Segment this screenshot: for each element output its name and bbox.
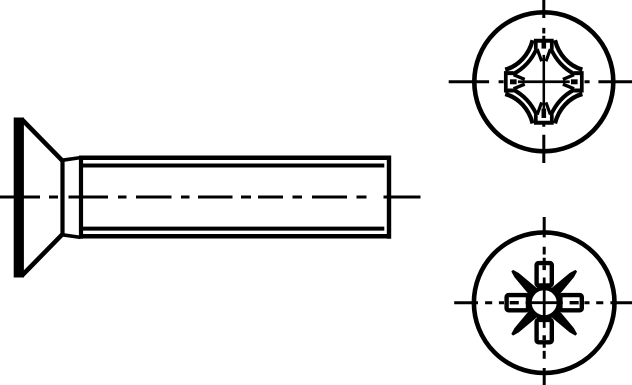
slot tip stub S xyxy=(543,335,546,340)
recess inner arc SE xyxy=(551,90,574,115)
recess tip stub left xyxy=(510,79,517,84)
slot tip stub W xyxy=(510,301,519,304)
neck runout lower line xyxy=(63,235,81,238)
recess inner arc NW xyxy=(514,49,537,74)
centerline (dash-dot axis of screw) xyxy=(0,196,421,199)
screw end vertical line xyxy=(387,156,391,239)
recess wing tip bracket bottom xyxy=(536,114,552,122)
recess inner arc SW xyxy=(514,90,537,115)
recess outer arc SE xyxy=(555,94,582,124)
recess wing tip bracket right xyxy=(574,73,582,90)
thread minor diameter bottom line xyxy=(83,227,384,231)
thread start vertical line xyxy=(79,156,83,239)
thread major diameter top line xyxy=(79,156,391,161)
recess wing tip bracket top xyxy=(536,41,552,49)
horizontal centerline dashes xyxy=(449,80,632,83)
recess outer arc NW xyxy=(505,40,532,70)
thread major diameter bottom line xyxy=(79,234,391,239)
recess slot S xyxy=(537,320,552,342)
head cone lower line xyxy=(22,234,63,276)
recess slot V lines right wing xyxy=(563,75,574,89)
recess center thin cross xyxy=(526,278,563,328)
center white disc xyxy=(532,290,557,315)
wedge NW xyxy=(508,306,541,339)
recess slot V lines top wing xyxy=(537,49,550,61)
recess center thin cross xyxy=(518,55,570,109)
slot tip stub E xyxy=(570,301,579,304)
recess tip stub bottom xyxy=(542,109,547,118)
center black ring xyxy=(527,286,561,320)
recess slot E xyxy=(560,295,581,310)
recess inner arc NE xyxy=(551,49,574,74)
recess slot V lines left wing xyxy=(514,75,525,89)
recess tip stub top xyxy=(542,42,547,48)
recess slot N xyxy=(507,263,582,342)
wedge NE xyxy=(508,267,580,339)
vertical centerline dashes xyxy=(542,0,545,163)
slot tip stub N xyxy=(543,265,546,270)
head cone upper line xyxy=(22,119,63,161)
vertical centerline dashes xyxy=(543,217,546,385)
recess outer arc NE xyxy=(555,40,582,70)
horizontal centerline dashes xyxy=(454,301,632,304)
wedge SE xyxy=(547,267,580,300)
head outline circle xyxy=(474,232,615,373)
neck runout upper line xyxy=(63,158,81,161)
wedge SW xyxy=(547,306,580,339)
recess slot W xyxy=(507,295,528,310)
recess slot V lines bottom wing xyxy=(537,102,550,114)
recess wing tip bracket left xyxy=(506,41,582,123)
recess tip stub right xyxy=(571,79,578,84)
screw head flat (left vertical thick bar) xyxy=(14,118,24,278)
head outline circle xyxy=(474,12,613,151)
thread minor diameter top line xyxy=(83,164,384,168)
recess outer arc SW xyxy=(505,94,532,124)
cone base vertical line xyxy=(60,160,64,236)
